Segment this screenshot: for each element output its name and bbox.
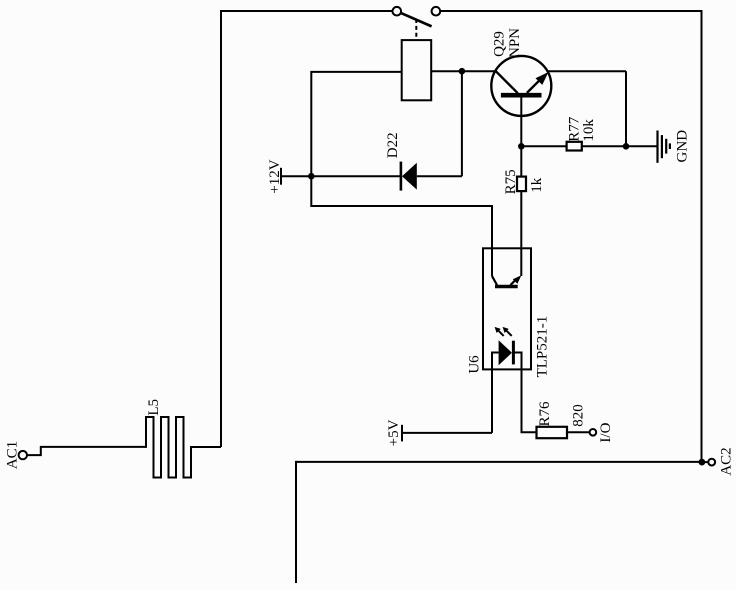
optocoupler U6 box <box>483 248 531 369</box>
wire R75 bottom to opto <box>520 191 522 276</box>
opto LED anode wire <box>492 353 499 433</box>
svg-text:+12V: +12V <box>267 159 283 193</box>
opto LED triangle <box>499 340 512 365</box>
wire +5V to opto LED <box>402 432 492 434</box>
opto phototransistor emitter arrowhead <box>513 275 522 284</box>
svg-text:Q29: Q29 <box>492 31 508 57</box>
inductor L5 meander <box>146 417 221 478</box>
AC2 terminal circle <box>708 459 715 466</box>
wire R75 top <box>520 146 522 176</box>
wire AC1 to L5 <box>27 447 146 455</box>
opto phototransistor base bar <box>495 285 518 289</box>
transistor Q29 emitter slant <box>527 79 541 93</box>
node junction dot emitter/R77 <box>623 143 630 150</box>
transistor Q29 base bar <box>501 93 542 98</box>
wire top-left horizontal <box>221 10 392 12</box>
wire right vertical <box>701 10 703 462</box>
svg-text:L5: L5 <box>146 399 162 416</box>
I/O terminal circle <box>590 429 597 436</box>
svg-text:GND: GND <box>674 130 690 163</box>
opto LED cathode wire down to R76 <box>513 353 536 433</box>
+12V terminal bar <box>280 168 282 185</box>
wire D22 vertical up to collector line <box>461 71 463 176</box>
wire relay right to Q29 collector <box>431 70 496 72</box>
wire left vertical <box>220 10 222 447</box>
transistor Q29 circle <box>491 56 551 116</box>
svg-text:TLP521-1: TLP521-1 <box>535 316 551 378</box>
wire D22 to vertical <box>417 175 462 177</box>
switch S contact circle right <box>432 7 441 16</box>
wire AC2 stub <box>702 461 708 463</box>
svg-text:NPN: NPN <box>507 28 523 58</box>
switch S contact circle left <box>393 7 402 16</box>
switch-relay dashed link <box>415 19 417 40</box>
svg-text:D22: D22 <box>385 132 401 158</box>
svg-text:+5V: +5V <box>386 419 402 446</box>
wire D22 anode side <box>311 175 401 177</box>
wire top-right horizontal <box>440 10 702 12</box>
diode D22 cathode bar <box>400 162 403 191</box>
wire Q29 emitter out <box>547 70 626 72</box>
resistor R76 box <box>537 427 568 438</box>
opto light arrow 2 <box>506 330 512 336</box>
opto LED cathode bar <box>512 341 515 365</box>
svg-text:I/O: I/O <box>598 422 614 442</box>
opto phototransistor collector slant <box>492 276 497 285</box>
wire R76 to I/O <box>567 431 590 433</box>
diode D22 triangle <box>402 163 417 190</box>
relay coil K box <box>402 40 432 100</box>
svg-text:AC1: AC1 <box>4 441 20 469</box>
wire emitter down <box>625 71 627 146</box>
wire R77 left <box>521 145 566 147</box>
transistor Q29 emitter arrowhead <box>536 72 549 85</box>
wire +12V to node <box>281 175 311 177</box>
svg-text:U6: U6 <box>467 355 483 374</box>
svg-text:820: 820 <box>570 404 586 427</box>
wire R77 right <box>582 145 626 147</box>
switch S lever <box>401 13 432 27</box>
resistor R75 box <box>517 177 526 192</box>
svg-text:R76: R76 <box>537 401 553 427</box>
resistor R77 box <box>567 142 582 151</box>
ground GND bars <box>656 131 658 163</box>
wire Q29 base lead <box>520 96 522 146</box>
wire bottom horizontal to AC2 <box>296 461 702 463</box>
node junction dot base/R77 <box>518 143 525 150</box>
node junction dot AC2 <box>699 459 706 466</box>
wire relay left loop (to +12V node and down to opto) <box>311 72 492 276</box>
node junction dot at +12V <box>308 173 315 180</box>
+5V terminal bar <box>401 425 403 442</box>
opto phototransistor emitter slant <box>511 281 515 285</box>
svg-text:R77: R77 <box>567 116 583 142</box>
wire to GND <box>626 145 658 147</box>
svg-text:R75: R75 <box>503 169 519 194</box>
transistor Q29 collector slant <box>496 71 518 93</box>
wire bottom-left vertical <box>295 461 297 583</box>
opto light arrow 1 <box>498 330 504 336</box>
svg-text:AC2: AC2 <box>719 447 735 475</box>
node junction dot at collector wire <box>459 68 466 75</box>
AC1 terminal circle <box>19 451 27 459</box>
svg-text:10k: 10k <box>581 119 597 142</box>
svg-text:1k: 1k <box>529 177 545 193</box>
